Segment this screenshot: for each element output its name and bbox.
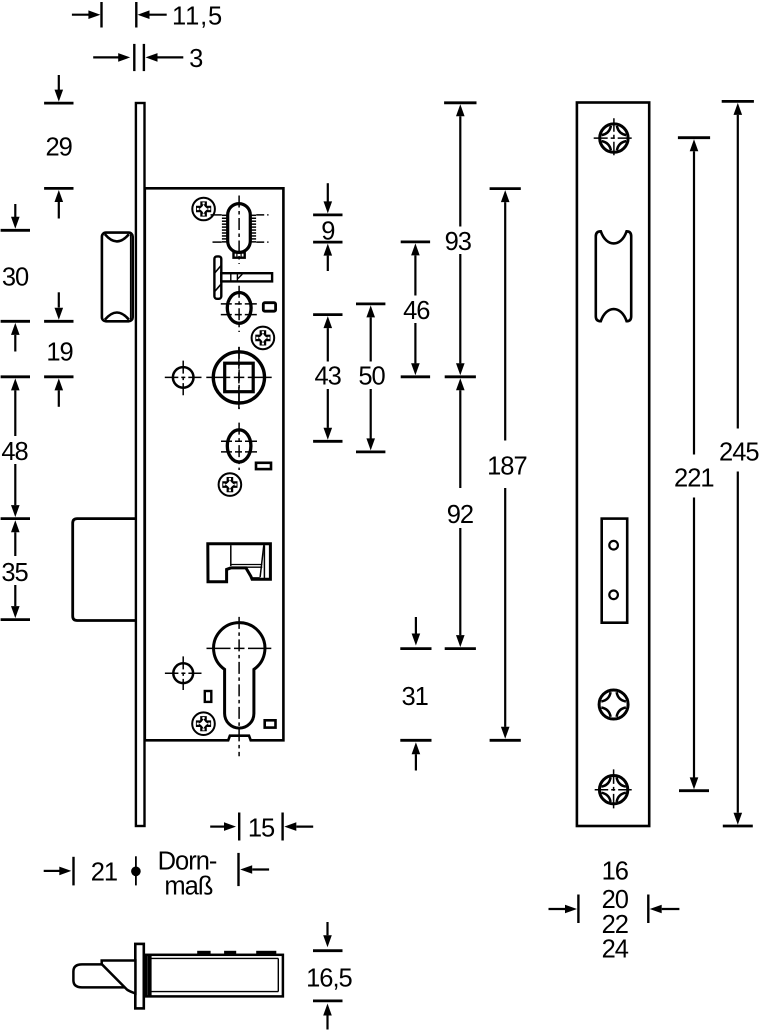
svg-text:245: 245 xyxy=(719,439,759,467)
svg-text:29: 29 xyxy=(46,133,72,161)
svg-text:15: 15 xyxy=(248,814,275,842)
svg-text:46: 46 xyxy=(403,297,430,325)
svg-text:187: 187 xyxy=(487,453,527,481)
svg-text:Dorn-: Dorn- xyxy=(158,847,217,875)
svg-text:21: 21 xyxy=(91,859,117,887)
svg-text:48: 48 xyxy=(1,438,28,466)
svg-text:9: 9 xyxy=(321,217,334,245)
svg-text:30: 30 xyxy=(2,263,29,291)
svg-text:35: 35 xyxy=(1,559,28,587)
svg-text:24: 24 xyxy=(602,936,629,964)
svg-text:11,5: 11,5 xyxy=(172,3,223,31)
svg-text:19: 19 xyxy=(46,339,72,367)
svg-text:93: 93 xyxy=(445,228,472,256)
svg-text:20: 20 xyxy=(602,886,629,914)
svg-text:16: 16 xyxy=(602,858,629,886)
svg-text:50: 50 xyxy=(358,363,385,391)
svg-text:221: 221 xyxy=(674,464,714,492)
svg-text:92: 92 xyxy=(447,501,473,529)
svg-text:31: 31 xyxy=(402,683,428,711)
svg-text:43: 43 xyxy=(315,363,342,391)
svg-text:16,5: 16,5 xyxy=(306,965,352,993)
svg-text:22: 22 xyxy=(602,911,628,939)
svg-text:maß: maß xyxy=(164,872,212,900)
svg-text:3: 3 xyxy=(189,45,203,73)
